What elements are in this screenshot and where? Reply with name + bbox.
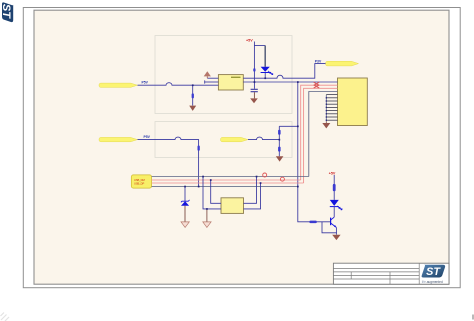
svg-text:+5V: +5V [329,171,336,175]
svg-text:P3V: P3V [315,59,322,63]
svg-text:ST: ST [426,266,441,278]
svg-text:P5V: P5V [144,135,151,139]
svg-text:USB_DP: USB_DP [134,182,144,186]
svg-text:USB_DM: USB_DM [134,178,145,182]
svg-text:+5V: +5V [246,38,253,42]
svg-text:P5V: P5V [142,81,149,85]
svg-text:life.augmented: life.augmented [422,280,443,284]
svg-text:ST: ST [0,4,12,19]
